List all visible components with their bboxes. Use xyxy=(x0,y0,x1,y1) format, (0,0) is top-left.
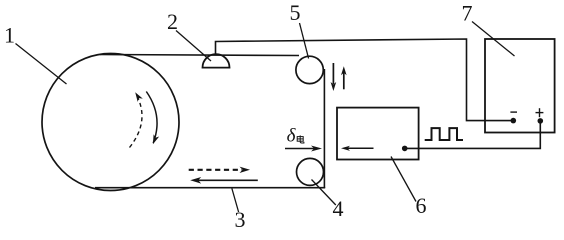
drum rotation arrow dashed (counter-clockwise) xyxy=(130,91,143,148)
leader line 4 xyxy=(312,180,336,206)
guide wheel 4 (lower pulley) xyxy=(297,158,324,185)
wire from contact 2 up and across to minus terminal xyxy=(216,39,513,121)
minus sign xyxy=(510,111,517,113)
wire travel arrow up (right of wheel 5) xyxy=(341,66,347,89)
wire electrode vertical span between guide wheels xyxy=(323,69,325,188)
plus terminal dot xyxy=(538,118,544,124)
leader line 1 xyxy=(16,44,67,85)
pulse waveform symbol xyxy=(425,128,463,140)
svg-text:4: 4 xyxy=(333,196,344,221)
wire travel arrow down (right of wheel 5) xyxy=(331,63,337,91)
contact support 2 (half-disc on wire) xyxy=(203,54,230,68)
pulse power supply box 7 xyxy=(485,39,555,133)
drum rotation arrow solid (clockwise) xyxy=(146,92,159,146)
leader line 2 xyxy=(176,31,211,62)
svg-text:1: 1 xyxy=(4,23,15,48)
wire from node through box edge to plus terminal xyxy=(405,122,541,148)
leader line 7 xyxy=(472,22,515,57)
node on box 6 feed line xyxy=(402,146,408,152)
label dian (CJK subscript of delta, drawn) xyxy=(297,135,304,143)
wire travel solid arrow (above bottom span, points left) xyxy=(190,177,258,184)
leader line 5 xyxy=(300,23,309,59)
plus sign xyxy=(536,108,544,117)
wire back-travel dashed arrow (above bottom span, points right) xyxy=(189,167,250,173)
leader line 6 xyxy=(391,157,416,202)
wire storage drum 1 (large circle) xyxy=(42,54,179,191)
svg-text:2: 2 xyxy=(167,9,178,34)
svg-text:5: 5 xyxy=(290,0,301,25)
feed arrow delta-dian (electrode gap feed, points right at wire) xyxy=(285,146,322,152)
workpiece motion arrow (inside box 6, points left) xyxy=(341,146,374,151)
svg-text:7: 7 xyxy=(462,1,473,26)
workpiece table box 6 xyxy=(337,108,419,160)
wire electrode bottom span (belt bottom line, label 3) xyxy=(95,187,325,189)
leader line 3 xyxy=(232,189,239,213)
svg-text:3: 3 xyxy=(235,207,246,231)
svg-text:δ: δ xyxy=(287,125,297,146)
guide wheel 5 (upper pulley) xyxy=(296,56,323,83)
svg-text:6: 6 xyxy=(416,193,427,218)
wire electrode top span (belt top line) xyxy=(100,55,299,56)
minus terminal dot xyxy=(511,118,517,124)
